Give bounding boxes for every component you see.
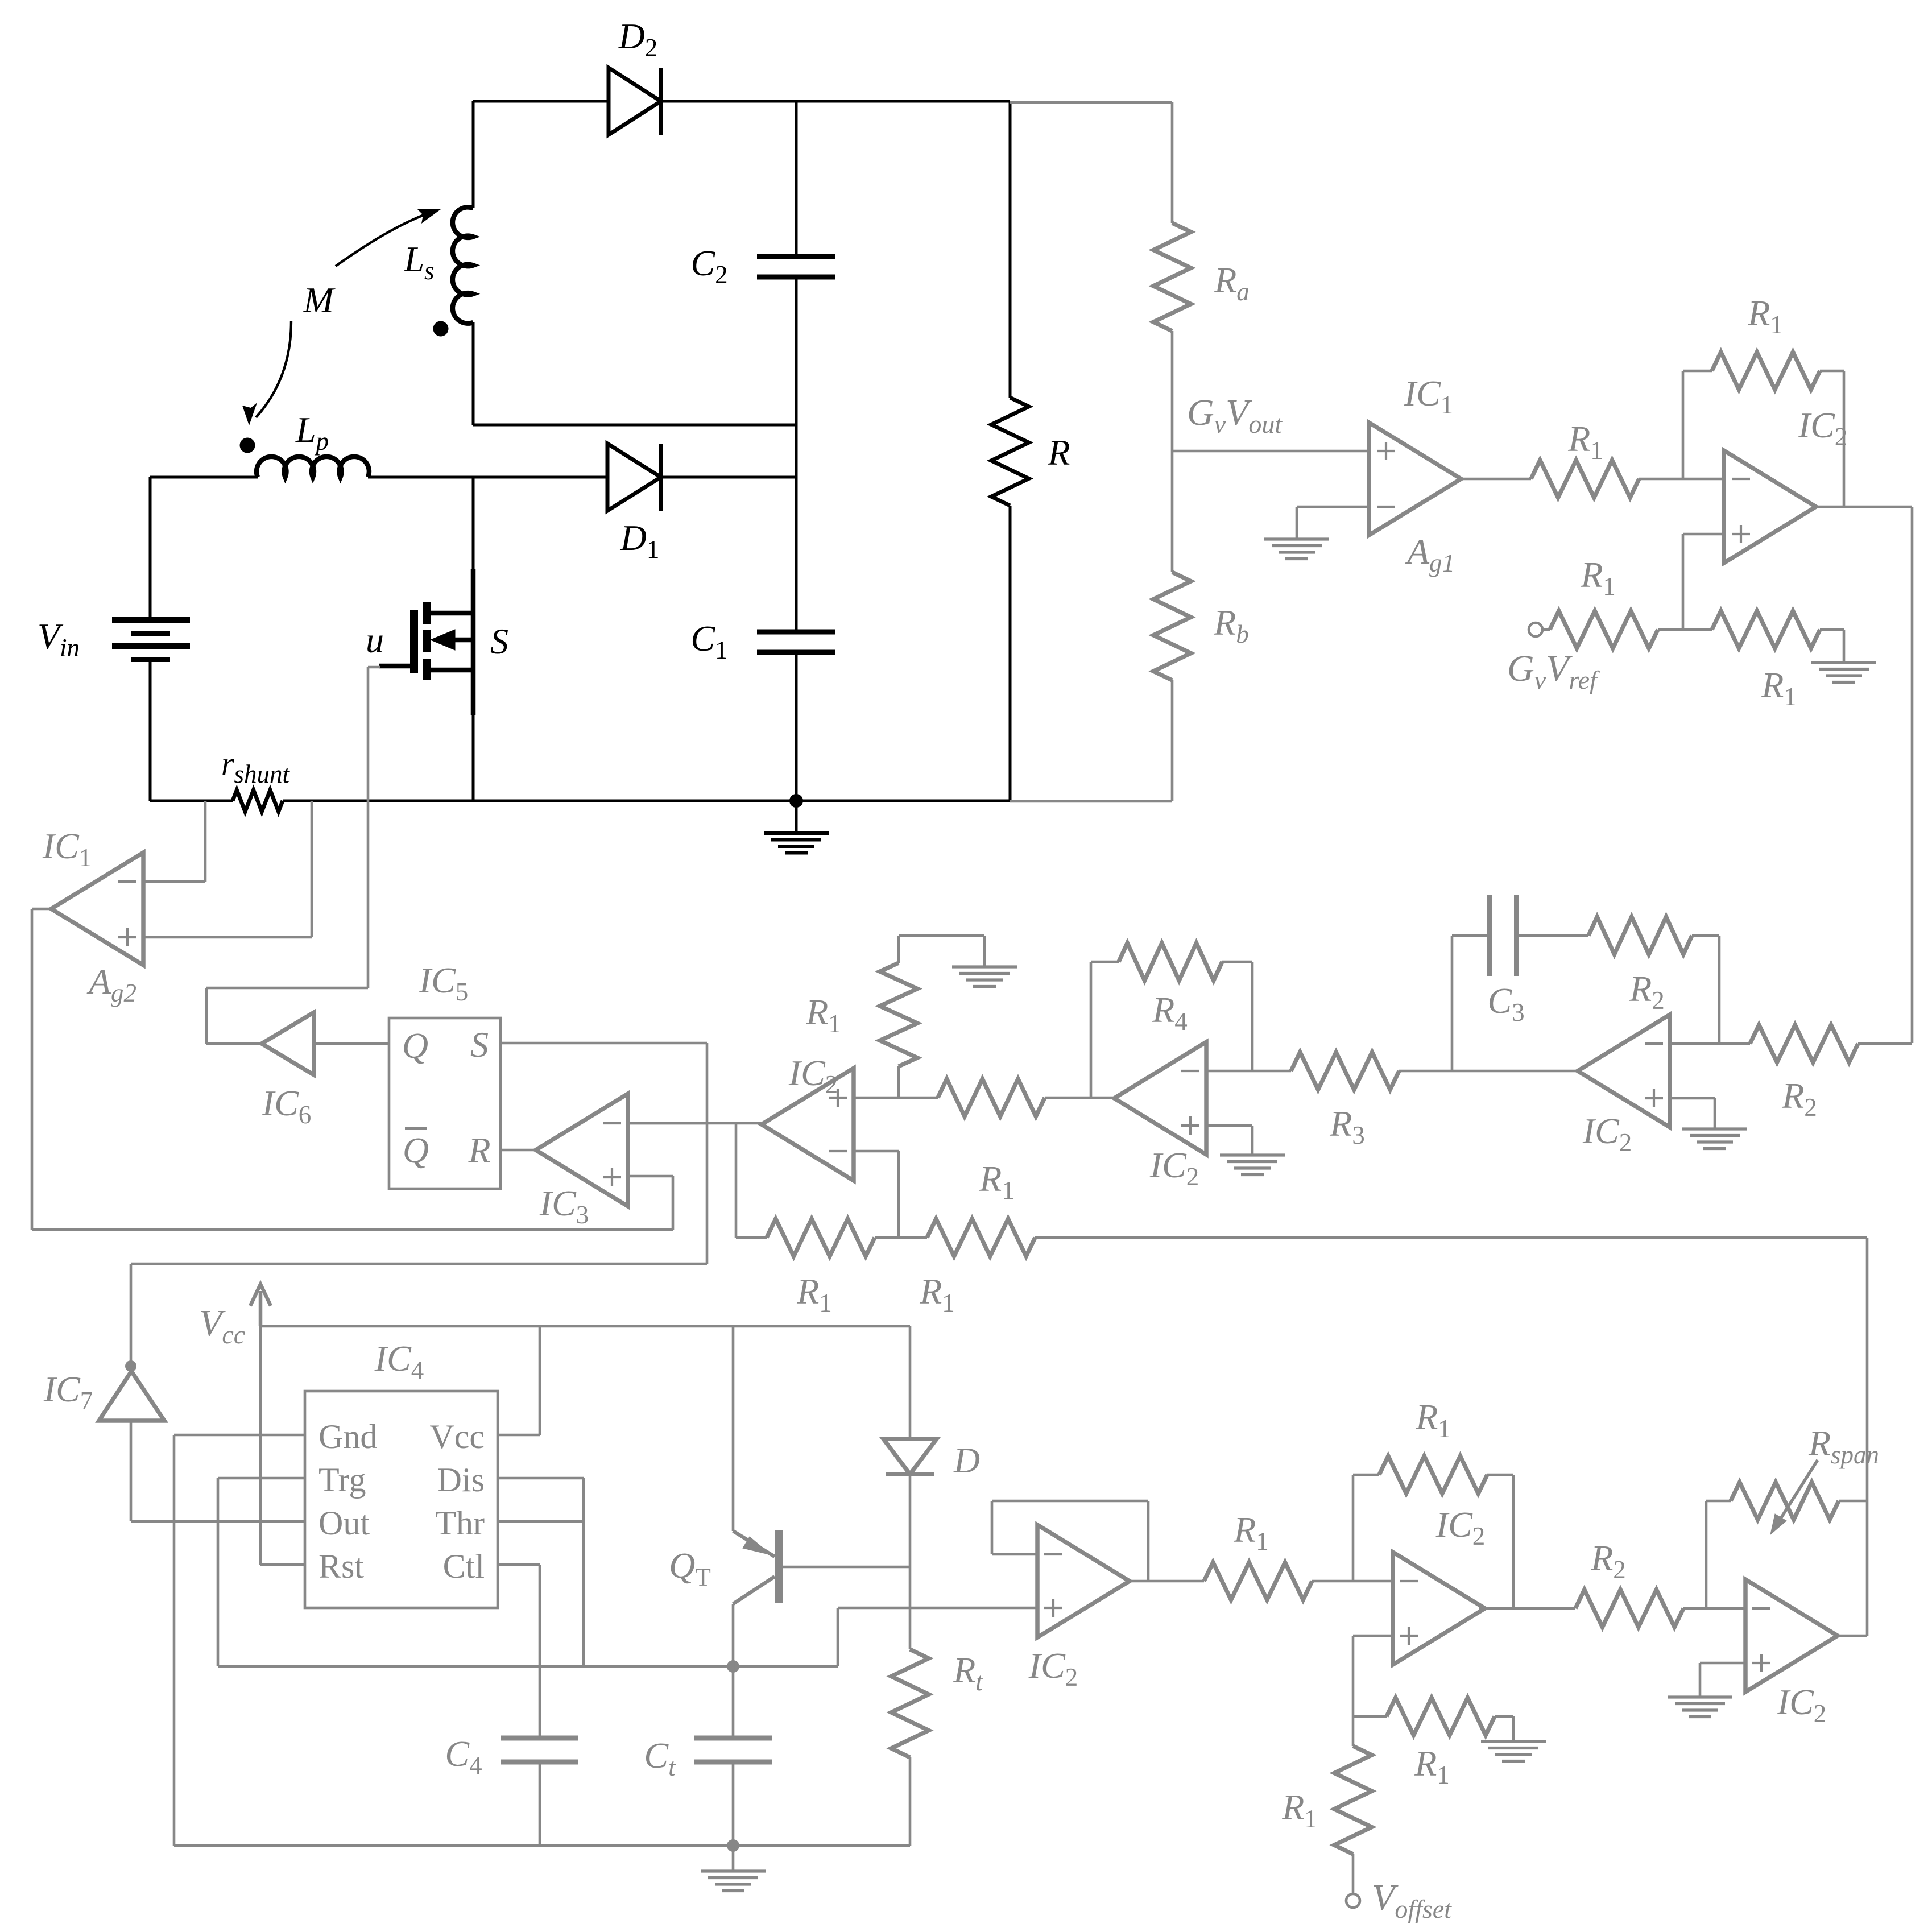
inverter IC6 — [262, 1012, 314, 1075]
wire R4 left — [1091, 961, 1119, 963]
power Vcc arrow — [259, 1291, 263, 1326]
wire Rt bottom — [909, 1757, 912, 1846]
wire Ag2 minus tap — [143, 880, 205, 883]
diode D1 — [607, 444, 661, 511]
wire Ls to C2 node — [473, 424, 796, 427]
wire C2 bottom to C1 top — [795, 277, 798, 632]
op-amp IC2 pwm comparator — [762, 1068, 854, 1181]
wire D to Rt — [909, 1474, 912, 1649]
wire C3 to R2 — [1517, 934, 1588, 937]
svg-text:S: S — [490, 621, 508, 661]
wire R1 to ground — [1495, 1715, 1513, 1718]
wire ramp feedback row — [736, 1236, 767, 1239]
resistor R1 summer in — [1204, 1562, 1312, 1600]
op-amp IC1 Ag2 current sense — [51, 853, 143, 965]
wire R1 feedback right — [1820, 370, 1844, 373]
wire top rail — [473, 100, 609, 103]
wire Vcc pin — [498, 1434, 540, 1437]
wire R1 to R4 stage out — [1045, 1097, 1115, 1099]
wire R2 to span minus — [1683, 1607, 1745, 1610]
svg-text:R: R — [1047, 432, 1070, 473]
resistor R3 — [1291, 1052, 1399, 1090]
wire output sense branch — [1010, 101, 1172, 104]
wire Trg pin — [218, 1477, 305, 1480]
wire S net vertical — [706, 1043, 709, 1264]
wire Ag2 output loop — [32, 908, 52, 911]
svg-text:u: u — [366, 620, 384, 660]
wire R4 tap — [1251, 962, 1254, 1071]
wire IC2 pwm out — [628, 1122, 761, 1125]
svg-text:Dis: Dis — [437, 1461, 485, 1499]
resistor R1 ramp right — [927, 1219, 1035, 1256]
svg-text:R: R — [468, 1130, 490, 1170]
wire right rail down to Rspan — [1866, 1238, 1869, 1501]
wire Lp to D1 — [368, 476, 607, 479]
wire span fb down — [1866, 1501, 1869, 1636]
ground error plus — [1220, 1153, 1285, 1156]
resistor R1 plus ground — [1387, 1698, 1495, 1735]
wire C3 branch up — [1451, 936, 1454, 1071]
wire S net bottom — [131, 1263, 707, 1265]
wire R3 to integrator out — [1399, 1070, 1452, 1073]
svg-text:Ctl: Ctl — [443, 1548, 485, 1585]
wire IC6 out to gate — [206, 1042, 262, 1045]
wire R1 junction — [1658, 628, 1712, 631]
ground summer plus — [1481, 1740, 1546, 1743]
wire R1 ground corner — [1820, 628, 1844, 631]
wire ramp row mid — [875, 1236, 927, 1239]
wire S pin — [500, 1042, 707, 1045]
dot Lp polarity — [240, 438, 255, 453]
wire buffer feedback — [992, 1553, 1037, 1556]
wire C1 bottom lead — [795, 652, 798, 801]
wire span plus — [1700, 1662, 1745, 1665]
wire IC3 minus — [628, 1122, 707, 1125]
svg-text:D: D — [953, 1440, 980, 1480]
wire offset lead — [1352, 1854, 1355, 1894]
op-amp IC1 Ag1 — [1369, 423, 1461, 535]
wire IC1 out — [1461, 478, 1531, 481]
wire Vin top to Lp — [150, 476, 258, 479]
wire Ag2 plus tap — [143, 936, 312, 939]
resistor R4 — [1119, 943, 1222, 981]
resistor Rt — [891, 1649, 929, 1757]
capacitor C1 — [757, 630, 835, 635]
op-amp IC2 integrator — [1578, 1015, 1670, 1127]
resistor Ra — [1153, 223, 1191, 331]
svg-text:Q: Q — [403, 1130, 429, 1170]
capacitor C3 — [1487, 895, 1492, 976]
transistor S nmos — [472, 477, 475, 572]
inductor Lp — [257, 457, 369, 477]
resistor R1 ramp left — [767, 1219, 875, 1256]
wire error plus — [1206, 1124, 1252, 1127]
wire IC2 plus lead — [1683, 533, 1724, 536]
ground span plus — [1668, 1695, 1732, 1698]
svg-text:Trg: Trg — [318, 1461, 366, 1499]
diode D discharge — [909, 1326, 912, 1439]
op-amp IC2 error amp R4 stage — [1114, 1042, 1206, 1155]
resistor R2 span in — [1575, 1590, 1683, 1627]
terminal GvVref — [1529, 623, 1542, 636]
wire IC7 out up — [130, 1264, 133, 1361]
wire error minus — [1206, 1070, 1291, 1073]
wire R1 feedback tap — [1682, 371, 1685, 479]
capacitor C4 — [501, 1736, 578, 1741]
wire Ctl pin — [498, 1563, 540, 1566]
wire Ra to Rb — [1171, 331, 1174, 572]
wire Ls top lead — [472, 101, 475, 208]
wire summer fb tap — [1352, 1475, 1355, 1581]
resistor R1 offset — [1334, 1746, 1372, 1854]
op-amp IC3 — [536, 1094, 628, 1206]
wire Vcc down to Rst — [259, 1326, 262, 1565]
wire C4 bottom — [539, 1762, 541, 1846]
wire Q to IC6 — [314, 1042, 389, 1045]
wire bottom rail left — [150, 800, 233, 802]
wire R2 input right — [1858, 1042, 1912, 1045]
wire R1 to summer minus — [1312, 1580, 1393, 1583]
resistor R1 summer fb — [1379, 1456, 1487, 1494]
wire Vcc rail — [260, 1325, 910, 1328]
inductor Ls — [453, 207, 473, 323]
wire IC2 pwm plus — [854, 1097, 938, 1099]
wire Out pin — [131, 1520, 305, 1523]
svg-text:M: M — [303, 280, 336, 320]
wire Rspan right — [1839, 1500, 1867, 1503]
wire pwm out down — [735, 1123, 738, 1238]
resistor Rb — [1153, 572, 1191, 680]
latch IC5 — [389, 1018, 500, 1189]
resistor R2 input — [1750, 1025, 1858, 1062]
resistor R1 pullup — [897, 1066, 900, 1098]
svg-text:S: S — [470, 1024, 489, 1065]
wire D1 to C1 node — [661, 476, 796, 479]
op-amp IC2 buffer — [1037, 1525, 1130, 1637]
wire buffer out — [1130, 1580, 1204, 1583]
resistor R1 to ground — [1712, 611, 1820, 648]
resistor R1 carrier in — [938, 1079, 1045, 1116]
dot Ls polarity — [433, 321, 449, 337]
ground integrator plus — [1682, 1127, 1747, 1130]
wire Gnd pin — [174, 1434, 305, 1437]
resistor R2 feedback — [1588, 917, 1692, 954]
wire ramp row to right rail — [1035, 1236, 1867, 1239]
wire span out — [1838, 1635, 1867, 1637]
wire summer plus — [1353, 1635, 1393, 1637]
potentiometer Rspan — [1731, 1482, 1839, 1520]
svg-text:Out: Out — [318, 1504, 370, 1542]
wire IC3 out to R pin — [500, 1149, 536, 1152]
wire summer fb right — [1487, 1474, 1513, 1476]
battery Vin — [149, 477, 152, 620]
resistor R1 feedback IC2 — [1712, 352, 1820, 390]
op-amp IC2 summer — [1393, 1552, 1485, 1665]
resistor rshunt — [233, 790, 283, 812]
diode D2 — [609, 68, 661, 135]
wire IC2 output to right rail — [1815, 506, 1912, 508]
ground R1 pullup — [952, 965, 1017, 968]
transistor QT pnp — [775, 1530, 783, 1603]
op-amp IC2 top right — [1724, 450, 1816, 563]
wire integrator plus — [1670, 1097, 1715, 1100]
capacitor C2 — [757, 254, 835, 259]
wire bottom rail — [283, 800, 1010, 802]
resistor R1 series IC1-IC2 — [1531, 460, 1639, 498]
wire timing net — [218, 1665, 838, 1668]
wire Thr pin — [498, 1520, 584, 1523]
wire gray bottom rail — [1010, 800, 1172, 803]
junction dot bottom — [727, 1839, 739, 1852]
junction dot timing — [727, 1660, 739, 1673]
wire IC1 minus to ground — [1297, 506, 1369, 508]
ground R1 divider — [1811, 661, 1876, 664]
svg-text:Vcc: Vcc — [429, 1418, 485, 1455]
wire GvVout to IC1 — [1172, 450, 1369, 453]
wire GvVref lead — [1542, 628, 1550, 631]
pot arrow Rspan — [1776, 1460, 1818, 1526]
ground IC1 minus — [1264, 537, 1329, 540]
wire C2 top lead — [795, 101, 798, 257]
mutual arrow to Lp — [256, 321, 291, 417]
svg-text:Rst: Rst — [318, 1548, 364, 1585]
op-amp IC2 span — [1745, 1579, 1838, 1692]
junction dot ground node — [789, 794, 803, 808]
wire integrator minus — [1670, 1042, 1750, 1045]
wire Dis pin — [498, 1477, 584, 1480]
ground power stage — [795, 801, 798, 833]
wire to buffer plus — [837, 1608, 839, 1666]
svg-text:Gnd: Gnd — [318, 1418, 377, 1455]
wire R2 fb right — [1692, 934, 1719, 937]
wire plus node — [1353, 1715, 1387, 1718]
inverter IC7 — [99, 1371, 164, 1421]
wire integrator out — [1452, 1070, 1579, 1073]
wire gray bottom rail 555 — [174, 1844, 910, 1847]
resistor R load — [1009, 101, 1012, 398]
terminal Voffset — [1346, 1894, 1360, 1908]
svg-text:Thr: Thr — [435, 1504, 485, 1542]
mutual arrow to Ls — [336, 213, 430, 266]
wire R1 to IC2 minus — [1639, 478, 1724, 481]
svg-text:Q: Q — [402, 1025, 428, 1066]
wire IC2 pwm minus — [854, 1150, 899, 1153]
wire summer out — [1479, 1607, 1575, 1610]
wire span fb tap — [1705, 1501, 1708, 1608]
ground 555 — [732, 1846, 735, 1871]
capacitor Ct — [732, 1666, 735, 1738]
wire Ls bottom lead — [472, 322, 475, 425]
wire Rb bottom — [1171, 680, 1174, 801]
resistor R1 GvVref — [1550, 611, 1658, 648]
wire right feedback rail down — [1911, 507, 1914, 1043]
timer IC4 box — [305, 1391, 498, 1608]
